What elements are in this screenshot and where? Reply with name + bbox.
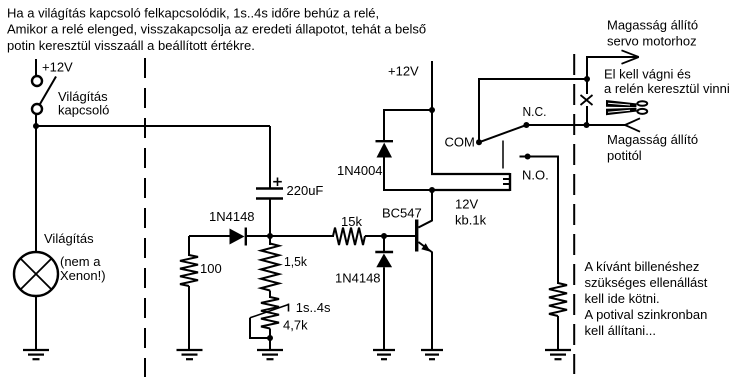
- ground under pot: [257, 350, 283, 359]
- svg-text:potin keresztül visszaáll a be: potin keresztül visszaáll a beállított é…: [7, 38, 255, 53]
- svg-text:Világítás: Világítás: [44, 231, 94, 246]
- wire collector up: [431, 190, 433, 221]
- wire down to cut mark: [586, 79, 588, 94]
- fork open arrow to poti: [625, 118, 640, 131]
- resistor R3 15k horizontal: [333, 228, 365, 245]
- svg-text:kb.1k: kb.1k: [455, 213, 487, 228]
- svg-text:12V: 12V: [455, 197, 478, 212]
- scissors icon: [606, 100, 647, 115]
- node junction dot B: [267, 233, 273, 239]
- dashed separator line left: [144, 58, 146, 377]
- svg-text:1N4148: 1N4148: [335, 271, 381, 286]
- svg-text:kell ide kötni.: kell ide kötni.: [585, 291, 660, 306]
- svg-text:kell állítani...: kell állítani...: [585, 323, 657, 338]
- node COM dot: [476, 139, 482, 145]
- svg-text:servo motorhoz: servo motorhoz: [607, 34, 697, 49]
- node junction dot base: [381, 233, 387, 239]
- svg-text:1,5k: 1,5k: [284, 254, 307, 269]
- svg-text:+12V: +12V: [388, 64, 419, 79]
- node junction dot top tee: [584, 76, 590, 82]
- wire cut mark to N.C. wire: [586, 106, 588, 125]
- COM riser wire: [479, 79, 587, 142]
- transistor Q1 BC547: [417, 220, 433, 253]
- wire horizontal main top: [36, 125, 270, 127]
- node junction dot A: [33, 123, 39, 129]
- svg-text:Magasság állító: Magasság állító: [607, 132, 698, 147]
- potentiometer P1 4,7k body: [261, 297, 279, 329]
- svg-text:220uF: 220uF: [287, 183, 324, 198]
- svg-text:1s..4s: 1s..4s: [296, 300, 331, 315]
- X cut mark: [581, 95, 593, 105]
- wire left part of mid row: [189, 235, 230, 237]
- wire diode to 15k: [247, 235, 334, 237]
- wire switch to node: [35, 114, 37, 127]
- wire up to servo arrow: [587, 57, 637, 79]
- wire cap to node B: [269, 200, 271, 238]
- svg-text:szükséges ellenállást: szükséges ellenállást: [585, 275, 708, 290]
- wire R4 to ground: [557, 316, 559, 350]
- switch S1 lower contact circle: [32, 104, 42, 114]
- svg-text:100: 100: [200, 261, 222, 276]
- svg-text:+12V: +12V: [42, 60, 73, 75]
- diode D1 1N4148 horizontal: [230, 228, 246, 246]
- ground under lamp: [23, 350, 49, 359]
- wire D2 to ground: [383, 267, 385, 350]
- diode D3 1N4004 vertical: [376, 141, 394, 157]
- N.C. wire to fork: [526, 124, 625, 126]
- switch S1 arm: [40, 77, 56, 105]
- servo arrow head: [622, 50, 639, 64]
- svg-text:N.C.: N.C.: [523, 104, 547, 119]
- ground under R1: [177, 350, 203, 359]
- node junction dot coil bottom: [429, 187, 435, 193]
- node junction dot pot bottom: [267, 335, 273, 341]
- resistor R1 100: [180, 255, 198, 286]
- node N.C. dot: [523, 122, 529, 128]
- wire node B to R2: [269, 236, 271, 245]
- wire capacitor branch down: [269, 126, 271, 188]
- svg-text:15k: 15k: [341, 214, 362, 229]
- wire R2 to pot: [269, 291, 271, 299]
- wire pot bottom to node: [269, 329, 271, 351]
- svg-text:1N4004: 1N4004: [337, 163, 383, 178]
- svg-text:Magasság állító: Magasság állító: [607, 18, 698, 33]
- capacitor plus sign: [273, 178, 282, 187]
- svg-text:Ha a világítás kapcsoló felkap: Ha a világítás kapcsoló felkapcsolódik, …: [7, 5, 379, 20]
- ground under R4: [545, 350, 571, 359]
- svg-text:Xenon!): Xenon!): [60, 268, 106, 283]
- capacitor C1 220uF plates: [256, 189, 283, 199]
- node junction dot on N.C. wire: [584, 122, 590, 128]
- wiper return wire: [250, 318, 270, 338]
- wire down to lamp: [35, 126, 37, 253]
- dashed separator line right: [573, 54, 575, 374]
- svg-text:4,7k: 4,7k: [283, 318, 308, 333]
- +12V terminal stub wire: [35, 59, 37, 76]
- ground under D2: [373, 350, 395, 359]
- svg-text:a relén keresztül vinni: a relén keresztül vinni: [604, 81, 730, 96]
- svg-text:BC547: BC547: [382, 206, 422, 221]
- diode D2 1N4148 vertical: [375, 252, 393, 267]
- node junction dot rail/diode: [429, 107, 435, 113]
- wire 15k to base: [365, 235, 415, 237]
- wire node to diode D2: [383, 236, 385, 251]
- wire 100 to ground: [188, 286, 190, 350]
- resistor R2 1,5k: [261, 244, 279, 291]
- wire lamp to ground: [35, 296, 37, 350]
- lamp (Világítás) circle with X: [14, 252, 58, 296]
- svg-text:potitól: potitól: [607, 148, 642, 163]
- relay mechanical link line: [502, 141, 504, 169]
- wire D3 top lead: [383, 109, 385, 140]
- svg-text:(nem a: (nem a: [60, 254, 101, 269]
- resistor R4 (billenés): [549, 283, 567, 316]
- wire rail to D3 top: [384, 109, 433, 111]
- svg-text:A potival szinkronban: A potival szinkronban: [585, 307, 708, 322]
- potentiometer wiper arm: [250, 304, 289, 318]
- svg-text:A kívánt billenéshez: A kívánt billenéshez: [585, 259, 700, 274]
- wire down to 100 ohm: [188, 236, 190, 256]
- wire D3 bottom lead: [384, 158, 432, 191]
- svg-text:kapcsoló: kapcsoló: [58, 103, 109, 118]
- +12V rail right: [431, 61, 433, 175]
- relay switch arm COM to N.C.: [479, 125, 526, 142]
- ground under emitter: [421, 350, 443, 359]
- svg-text:Amikor a relé elenged, visszak: Amikor a relé elenged, visszakapcsolja a…: [7, 22, 426, 37]
- relay coil K1 leads and body: [431, 173, 510, 191]
- +12V terminal circle: [32, 76, 42, 86]
- N.O. wire: [520, 157, 559, 285]
- svg-text:El kell vágni és: El kell vágni és: [604, 67, 691, 82]
- svg-text:COM: COM: [445, 135, 475, 150]
- svg-text:1N4148: 1N4148: [209, 209, 255, 224]
- wire emitter down: [431, 252, 433, 350]
- node N.O. dot: [525, 154, 531, 160]
- svg-text:N.O.: N.O.: [522, 168, 549, 183]
